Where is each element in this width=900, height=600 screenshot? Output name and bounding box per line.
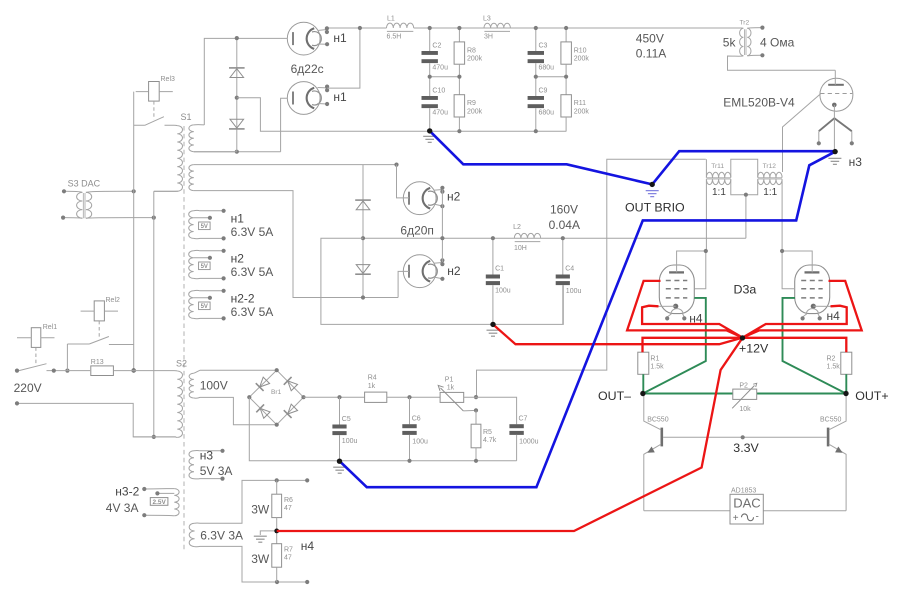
tube V3 6д20п upper <box>403 182 436 215</box>
svg-text:н1: н1 <box>333 90 347 104</box>
wire red U2 grid <box>743 281 862 338</box>
winding n3 5V 3A <box>189 451 194 479</box>
svg-text:220V: 220V <box>14 381 42 395</box>
svg-text:1k: 1k <box>368 383 376 390</box>
wire S1w2 bottom lead <box>194 191 398 298</box>
svg-text:100u: 100u <box>495 288 511 295</box>
wire mains bus A <box>133 92 135 371</box>
tube U2 D3a right <box>795 265 830 314</box>
svg-text:R8: R8 <box>467 47 476 54</box>
cap C1 <box>492 238 494 274</box>
node +12V star <box>740 335 745 340</box>
wire n4 gnd <box>260 531 276 535</box>
wire V3 anode <box>397 165 410 198</box>
svg-text:C10: C10 <box>432 87 445 94</box>
wire U2 anode+g2 to node B <box>782 251 812 289</box>
transformer S2 primary <box>177 371 182 437</box>
svg-text:6.3V 5A: 6.3V 5A <box>231 225 274 239</box>
svg-text:Rel2: Rel2 <box>106 297 121 304</box>
transformer S1 HV winding <box>189 125 194 152</box>
switch Rel1 contact (220V) <box>15 369 19 373</box>
node S3 taps <box>132 189 136 193</box>
svg-text:C6: C6 <box>412 416 421 423</box>
svg-text:200k: 200k <box>574 108 590 115</box>
svg-text:R4: R4 <box>368 375 377 382</box>
svg-text:R9: R9 <box>467 100 476 107</box>
bridge Br1 <box>249 370 303 425</box>
node filter gnd dots <box>407 459 411 463</box>
svg-text:47: 47 <box>284 505 292 512</box>
svg-text:1:1: 1:1 <box>763 187 777 198</box>
wire DAC loop <box>644 510 846 512</box>
svg-text:6.3V 5A: 6.3V 5A <box>231 265 274 279</box>
tube V3 pins n2 <box>434 190 443 207</box>
svg-text:200k: 200k <box>467 108 483 115</box>
svg-text:OUT BRIO: OUT BRIO <box>625 201 685 215</box>
svg-text:5k: 5k <box>723 36 737 50</box>
node 160V dots <box>491 236 495 240</box>
wire V2 cathode to rail <box>327 28 360 88</box>
svg-text:5V: 5V <box>201 304 208 310</box>
svg-text:P2: P2 <box>739 382 748 389</box>
svg-text:R11: R11 <box>574 100 586 107</box>
diode D1 <box>230 69 244 78</box>
node OUT- OUT+ <box>640 391 645 396</box>
svg-text:S2: S2 <box>176 358 187 368</box>
bridge diodes <box>256 376 270 390</box>
svg-text:200k: 200k <box>574 56 590 63</box>
wire U1 anode+g2 to node A <box>677 251 706 289</box>
svg-text:н2: н2 <box>231 252 245 266</box>
svg-text:450V: 450V <box>636 32 664 46</box>
svg-text:Tr11: Tr11 <box>711 163 724 170</box>
diode D2 <box>230 119 244 128</box>
svg-text:R1: R1 <box>650 355 659 362</box>
transformer S2 100V winding <box>189 373 194 398</box>
svg-text:6д20п: 6д20п <box>400 224 434 238</box>
svg-text:C9: C9 <box>539 87 548 94</box>
svg-text:D3a: D3a <box>734 282 757 296</box>
wire V2 anode <box>281 98 288 152</box>
resistor R11 <box>561 95 572 117</box>
svg-text:200k: 200k <box>467 56 483 63</box>
transformer core dashed <box>183 126 185 552</box>
tube V1 6д22с upper <box>287 22 320 55</box>
svg-text:160V: 160V <box>550 203 578 217</box>
svg-text:н2: н2 <box>447 189 461 203</box>
wire red U1 grid <box>627 281 743 338</box>
wire Br1 out+ <box>304 396 365 398</box>
svg-text:DAC: DAC <box>733 496 760 511</box>
svg-text:3.3V: 3.3V <box>733 441 759 455</box>
svg-text:R6: R6 <box>284 497 293 504</box>
switch Rel2 contact <box>67 337 133 345</box>
svg-text:-: - <box>756 512 759 523</box>
cap C5 <box>339 397 341 424</box>
tube V1 pins n1 <box>318 30 327 45</box>
wire filter rail <box>464 397 517 424</box>
svg-text:+12V: +12V <box>739 341 769 355</box>
wire Tr12 bottom-right to node B <box>781 179 783 251</box>
wire blue HT gnd to OUT BRIO <box>430 131 653 185</box>
svg-text:1000u: 1000u <box>519 438 539 445</box>
resistor R8 <box>458 28 460 42</box>
svg-text:Rel3: Rel3 <box>161 76 176 83</box>
svg-text:0.11A: 0.11A <box>636 47 666 61</box>
svg-text:Tr2: Tr2 <box>740 20 750 27</box>
node n4 <box>274 529 279 534</box>
ground sym HT <box>423 136 436 142</box>
svg-text:BC550: BC550 <box>820 416 842 423</box>
winding n1 6.3V 5A <box>189 211 194 239</box>
svg-text:47: 47 <box>284 555 292 562</box>
wire red +12V bus <box>493 324 743 344</box>
svg-text:4.7k: 4.7k <box>483 437 497 444</box>
svg-text:L3: L3 <box>483 16 491 23</box>
resistor R2 <box>841 352 852 374</box>
wire red R1-R2 rail <box>643 338 847 352</box>
wire cathodes to rail <box>441 190 443 263</box>
wire Tr11 bottom-left to node A <box>705 179 707 251</box>
wire diode string vertical <box>236 38 238 152</box>
wire mains bus B <box>154 191 179 437</box>
wire diode string mid <box>362 165 364 298</box>
wire 220V line 2 <box>17 403 176 437</box>
svg-text:5V 3A: 5V 3A <box>200 464 233 478</box>
ground sym OUT BRIO <box>646 191 659 197</box>
tube U1 D3a left <box>659 265 694 314</box>
transformer S1 LV winding <box>189 165 194 191</box>
cap C2 <box>429 28 431 51</box>
svg-text:0.04A: 0.04A <box>549 218 580 232</box>
wire red U2 cathode <box>743 306 847 338</box>
cap C6 <box>409 397 411 424</box>
resistor R5 <box>475 410 477 424</box>
wire HV winding bottom <box>194 151 281 153</box>
svg-text:6.3V 5A: 6.3V 5A <box>231 305 274 319</box>
winding n3-2 4V 3A <box>174 489 179 516</box>
wire 3.3V base link <box>663 436 827 438</box>
inductor L2 <box>514 233 540 238</box>
svg-text:1.5k: 1.5k <box>650 363 664 370</box>
svg-text:4V 3A: 4V 3A <box>106 501 139 515</box>
svg-text:680u: 680u <box>539 65 555 72</box>
svg-text:100u: 100u <box>342 438 358 445</box>
svg-text:470u: 470u <box>432 65 448 72</box>
wire OUT BRIO box <box>477 159 706 397</box>
wire V1 anode <box>204 38 287 125</box>
cap C10 <box>422 96 438 100</box>
svg-text:3W: 3W <box>251 502 270 516</box>
tube EML520B-V4 <box>820 78 853 111</box>
svg-text:EML520B-V4: EML520B-V4 <box>723 95 795 109</box>
resistor R7 <box>276 518 278 544</box>
svg-text:Tr12: Tr12 <box>763 163 777 170</box>
svg-text:3W: 3W <box>251 552 270 566</box>
winding 6.3V 3A <box>189 523 194 546</box>
svg-text:BC550: BC550 <box>647 416 669 423</box>
cap C3 <box>535 28 537 51</box>
svg-text:4 Ома: 4 Ома <box>760 36 795 50</box>
svg-text:R7: R7 <box>284 547 293 554</box>
svg-text:1:1: 1:1 <box>712 187 726 198</box>
svg-text:6д22с: 6д22с <box>291 62 324 76</box>
svg-text:R2: R2 <box>827 355 836 362</box>
svg-text:н2-2: н2-2 <box>231 292 255 306</box>
svg-text:100u: 100u <box>412 438 428 445</box>
svg-text:OUT+: OUT+ <box>855 389 888 403</box>
wire C3-R10 mid <box>536 76 566 78</box>
wire Tr2 primary bottom <box>728 56 836 70</box>
svg-text:5V: 5V <box>201 224 208 230</box>
inductor L3 <box>484 23 510 28</box>
wire Rel2 link <box>66 344 68 371</box>
tube V4 pins n2 <box>434 263 443 279</box>
winding n2 6.3V 5A <box>189 251 194 279</box>
svg-text:R5: R5 <box>483 429 492 436</box>
svg-text:н1: н1 <box>231 212 245 226</box>
svg-text:S3 DAC: S3 DAC <box>68 179 101 189</box>
svg-text:680u: 680u <box>539 110 555 117</box>
node rail dots 2 <box>534 26 538 30</box>
svg-text:AD1853: AD1853 <box>731 488 756 495</box>
wire blue OUT BRIO to n3 <box>652 151 835 184</box>
wire S1w2 top lead <box>194 164 397 166</box>
wire C2-R8 mid <box>430 76 460 78</box>
svg-text:Rel1: Rel1 <box>43 324 58 331</box>
svg-text:2.5V: 2.5V <box>153 499 167 506</box>
svg-text:C3: C3 <box>539 42 548 49</box>
tube V4 6д20п lower <box>403 255 436 288</box>
svg-text:470u: 470u <box>432 110 448 117</box>
svg-text:L1: L1 <box>387 16 395 23</box>
wire 160V rail <box>363 237 746 239</box>
inductor L1 <box>387 23 414 28</box>
svg-text:10k: 10k <box>739 406 751 413</box>
svg-text:P1: P1 <box>445 377 454 384</box>
svg-text:OUT–: OUT– <box>598 389 631 403</box>
diode D3 <box>356 201 370 210</box>
wire green left <box>643 298 706 394</box>
svg-text:1.5k: 1.5k <box>827 363 841 370</box>
wire blue n3 to C5 gnd <box>340 152 835 488</box>
svg-text:6.5H: 6.5H <box>387 34 402 41</box>
svg-text:+: + <box>733 513 739 524</box>
svg-text:C4: C4 <box>565 266 574 273</box>
tube V2 6д22с lower <box>287 82 320 115</box>
svg-text:10H: 10H <box>514 245 527 252</box>
svg-text:C7: C7 <box>519 416 528 423</box>
wire 160V return <box>321 238 493 324</box>
wire V4 anode <box>398 271 409 297</box>
svg-text:5V: 5V <box>201 264 208 270</box>
wire EML grid lead <box>783 94 821 173</box>
wire Tr2 sec pins <box>747 28 762 56</box>
svg-text:6.3V 3A: 6.3V 3A <box>200 529 243 543</box>
svg-text:R10: R10 <box>574 47 587 54</box>
EML filament <box>833 105 835 118</box>
ground sym C5 <box>333 467 346 473</box>
ground sym 160V <box>487 330 500 336</box>
resistor R6 <box>276 480 278 494</box>
wire C1-C4 bottom bus <box>493 285 563 324</box>
tube V2 pins n1 <box>318 88 328 105</box>
switch S1 mains <box>134 117 164 126</box>
cap C7 <box>509 424 523 428</box>
resistor R10 <box>565 28 567 42</box>
svg-text:3H: 3H <box>484 34 493 41</box>
svg-text:н3: н3 <box>849 155 863 169</box>
svg-text:R13: R13 <box>91 359 104 366</box>
wire red to n4 <box>277 338 743 531</box>
wire ground bus HT <box>237 98 567 132</box>
svg-text:1k: 1k <box>447 385 455 392</box>
node bus dots <box>457 129 461 133</box>
transformer S1 primary <box>177 126 182 192</box>
wire green right <box>783 298 847 394</box>
cap C4 <box>562 238 564 274</box>
svg-text:C2: C2 <box>432 42 441 49</box>
wire Br1 out- to gnd bus <box>249 397 516 461</box>
svg-text:Br1: Br1 <box>271 389 282 396</box>
wire Tr11/Tr12 centre tap <box>731 179 758 238</box>
svg-text:н4: н4 <box>827 309 841 323</box>
svg-text:L2: L2 <box>513 224 521 231</box>
cap C9 <box>528 96 544 100</box>
svg-text:н1: н1 <box>333 31 347 45</box>
svg-text:н4: н4 <box>301 539 315 553</box>
svg-text:C1: C1 <box>495 266 504 273</box>
resistor R1 <box>638 352 649 374</box>
node blue dots <box>427 128 432 133</box>
svg-text:100V: 100V <box>200 378 228 392</box>
svg-text:100u: 100u <box>566 288 582 295</box>
wire red U1 cathode <box>642 306 743 338</box>
diode D4 <box>356 265 370 274</box>
svg-text:н3-2: н3-2 <box>115 484 139 498</box>
svg-text:н2: н2 <box>447 264 461 278</box>
ground sym n3 <box>828 158 841 164</box>
svg-text:S1: S1 <box>181 112 192 122</box>
svg-text:C5: C5 <box>342 416 351 423</box>
wire green out bus <box>643 393 846 395</box>
svg-text:н3: н3 <box>200 448 214 462</box>
wire top rail 450V <box>327 27 743 29</box>
resistor R9 <box>454 95 465 117</box>
winding n2-2 6.3V 5A <box>189 291 194 319</box>
node rail dots 1 <box>428 26 432 30</box>
